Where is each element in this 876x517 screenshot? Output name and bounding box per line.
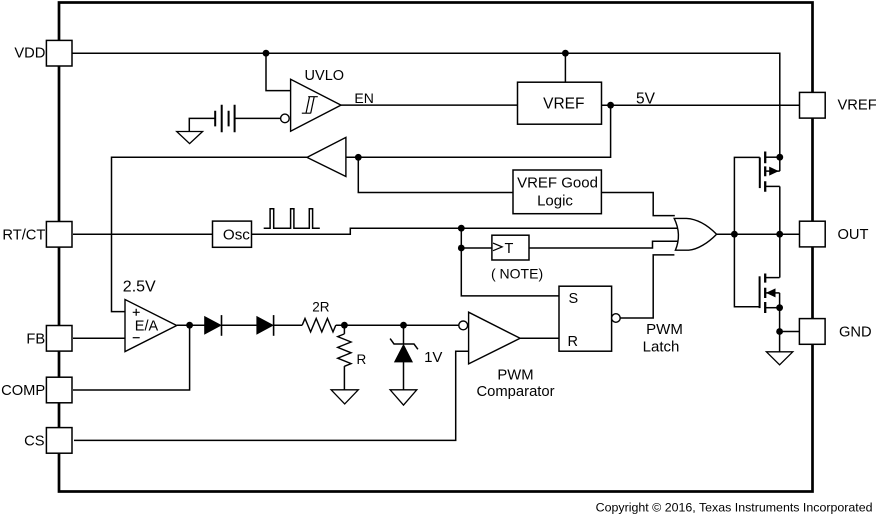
wire VDD rail to upper FET drain	[72, 53, 780, 157]
wire diode D1 to diode D2	[222, 324, 257, 326]
pin GND	[799, 319, 825, 345]
svg-text:COMP: COMP	[1, 383, 45, 399]
wire OR gate output to OUT pin	[717, 233, 800, 235]
wire zener bottom to ground	[403, 362, 405, 390]
wire latch output to OR gate	[620, 255, 674, 318]
wire RT/CT pin to Osc	[73, 233, 213, 235]
node 5V junction	[607, 102, 614, 109]
wire lower FET source to GND pin and ground	[780, 308, 800, 352]
transistor Q1 body stub	[765, 170, 780, 172]
node buffer input junction	[355, 154, 362, 161]
wire 5V branch down to buffer input	[346, 105, 611, 157]
ground (battery)	[177, 132, 203, 144]
transistor Q2 body stub	[765, 292, 779, 294]
node clock junction at T input	[458, 245, 465, 252]
node clock junction upper	[458, 225, 465, 232]
svg-text:S: S	[569, 291, 579, 307]
svg-text:2.5V: 2.5V	[123, 279, 156, 296]
wire upper FET body tie	[779, 157, 781, 171]
wire CS pin to PWM comparator input	[74, 351, 469, 440]
wire 2R node to zener node to comparator bubble	[336, 324, 459, 326]
svg-text:PWM: PWM	[497, 368, 533, 384]
block T toggle flip-flop	[492, 235, 529, 260]
pin CS	[46, 428, 72, 454]
diode D1	[205, 317, 221, 334]
wire clock branch to T flip-flop	[461, 228, 492, 248]
pin OUT	[800, 221, 826, 247]
svg-text:T: T	[505, 241, 514, 257]
svg-text:VREF Good: VREF Good	[517, 175, 598, 192]
UVLO inverting input bubble	[281, 114, 290, 123]
svg-text:PWM: PWM	[646, 321, 683, 338]
transistor Q1 drain stub	[765, 156, 780, 158]
node upper FET drain junction	[776, 154, 783, 161]
node VDD rail to UVLO junction	[263, 50, 270, 57]
wire T output to OR gate	[529, 241, 679, 248]
wire E/A output to diode D1	[177, 324, 205, 326]
wire totem-pole gate drive	[734, 157, 759, 306]
diode D2	[257, 317, 273, 334]
svg-text:Osc: Osc	[223, 226, 250, 243]
wire lower FET body tie	[779, 293, 781, 308]
ground (GND pin)	[766, 352, 792, 365]
pin COMP	[46, 377, 72, 403]
svg-text:EN: EN	[354, 90, 373, 106]
transistor Q1 source stub	[765, 185, 780, 187]
wire resistor R top	[343, 325, 345, 334]
wire PWM comparator output to latch R input	[520, 337, 559, 339]
E/A minus input marker	[133, 337, 140, 339]
wire battery to ground	[189, 118, 215, 131]
buffer U2 (left-pointing) 2.5V reference buffer	[307, 137, 346, 176]
zener diode D3 1V clamp	[390, 339, 418, 350]
node GND junction	[776, 328, 783, 335]
op-amp U6 PWM comparator	[469, 312, 520, 364]
pin FB	[46, 326, 72, 352]
transistor Q2 drain stub	[765, 277, 779, 279]
node lower FET source junction	[776, 304, 783, 311]
hysteresis symbol inside UVLO	[302, 97, 318, 114]
latch output bubble	[612, 314, 621, 323]
or-gate U4	[674, 218, 716, 250]
block VREF Good Logic	[513, 170, 601, 214]
node E/A output junction	[186, 322, 193, 329]
svg-text:VDD: VDD	[14, 46, 45, 62]
block VREF regulator	[518, 82, 602, 124]
node zener junction	[400, 322, 407, 329]
wire VREF block supply branch	[564, 53, 566, 82]
oscillator clock waveform	[264, 209, 320, 229]
wire zener top	[403, 325, 405, 344]
ground (resistor R)	[331, 390, 358, 404]
T clock input marker	[493, 243, 502, 251]
node OR output gate-drive junction	[731, 231, 738, 238]
wire node to VREF Good Logic input	[358, 157, 513, 192]
svg-text:UVLO: UVLO	[305, 68, 345, 84]
svg-text:FB: FB	[26, 332, 45, 348]
svg-text:GND: GND	[839, 325, 872, 341]
wire buffer output to E/A noninverting input	[112, 157, 308, 311]
wire Osc output clock to OR gate	[252, 228, 680, 234]
svg-text:VREF: VREF	[838, 98, 876, 114]
pin VDD	[46, 40, 72, 66]
ground (zener)	[390, 390, 417, 405]
svg-text:Comparator: Comparator	[476, 384, 554, 400]
op-amp U1 UVLO comparator	[291, 79, 341, 131]
wire EN from UVLO to VREF block	[341, 104, 518, 106]
svg-text:Logic: Logic	[537, 192, 573, 209]
wire E/A output feedback to COMP pin	[73, 325, 190, 390]
svg-text:RT/CT: RT/CT	[2, 228, 45, 244]
wire FB pin to E/A inverting input	[73, 337, 125, 339]
node 2R-R divider junction	[341, 322, 348, 329]
transistor Q1 body arrow	[769, 167, 779, 176]
wire 5V from VREF block to VREF pin	[602, 104, 800, 106]
E/A plus input marker	[133, 309, 140, 316]
op-amp U5 E/A error amplifier	[125, 300, 177, 352]
svg-text:Latch: Latch	[643, 339, 680, 356]
svg-text:CS: CS	[24, 434, 45, 450]
svg-text:1V: 1V	[424, 349, 442, 366]
svg-text:2R: 2R	[312, 300, 330, 315]
latch U3 PWM latch box	[559, 286, 612, 351]
PWM comparator input bubble	[459, 321, 468, 330]
pin RT/CT	[46, 222, 72, 248]
transistor Q2 source stub	[765, 307, 779, 309]
transistor Q1 channel segments	[764, 152, 766, 192]
wire resistor R bottom to ground	[343, 366, 345, 390]
svg-text:VREF: VREF	[543, 96, 584, 113]
wire UVLO supply branch	[266, 53, 291, 90]
node VDD rail to VREF junction	[562, 50, 569, 57]
pin VREF	[800, 92, 826, 118]
wire clock branch to latch S input	[461, 248, 559, 296]
svg-text:R: R	[568, 334, 578, 350]
wire diode D2 to resistor 2R	[274, 324, 303, 326]
transistor Q2 body arrow	[766, 288, 776, 297]
svg-text:5V: 5V	[636, 91, 656, 108]
wire battery to UVLO bubble	[235, 117, 281, 119]
svg-text:( NOTE): ( NOTE)	[491, 266, 543, 282]
resistor R zigzag	[338, 334, 351, 366]
svg-text:R: R	[357, 352, 367, 367]
transistor Q1 upper MOSFET gate plate	[759, 157, 761, 188]
node OUT junction	[776, 231, 783, 238]
block Osc oscillator	[213, 221, 252, 247]
wire VREF Good Logic output to OR gate	[601, 193, 674, 216]
svg-text:E/A: E/A	[135, 319, 159, 335]
wire upper FET source to lower FET drain	[779, 186, 781, 277]
svg-text:Copyright © 2016, Texas Instru: Copyright © 2016, Texas Instruments Inco…	[596, 500, 873, 514]
svg-text:OUT: OUT	[838, 227, 869, 243]
battery B1 reference plates	[215, 111, 228, 127]
transistor Q2 channel segments	[764, 274, 766, 314]
transistor Q2 lower MOSFET gate plate	[759, 276, 761, 308]
resistor 2R zigzag	[302, 319, 336, 332]
